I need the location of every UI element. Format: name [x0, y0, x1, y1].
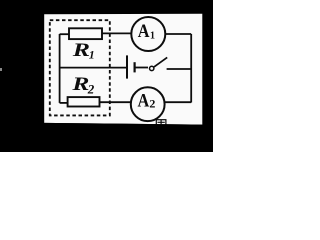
svg-text:1: 1	[150, 30, 155, 41]
svg-text:R: R	[71, 73, 89, 94]
svg-text:R: R	[72, 39, 90, 60]
svg-text:A: A	[138, 90, 150, 111]
svg-text:2: 2	[87, 81, 95, 96]
svg-text:1: 1	[89, 48, 95, 62]
svg-text:2: 2	[149, 96, 155, 110]
svg-text:A: A	[138, 20, 150, 41]
